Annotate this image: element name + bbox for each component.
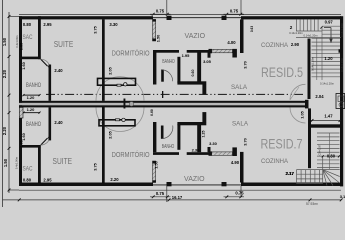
svg-text:1.20: 1.20 xyxy=(27,107,36,112)
svg-text:1.85: 1.85 xyxy=(19,43,23,50)
svg-text:1.50: 1.50 xyxy=(154,161,159,169)
svg-text:1.95: 1.95 xyxy=(182,53,191,58)
svg-text:3.1: 3.1 xyxy=(340,194,345,199)
svg-text:SUITE: SUITE xyxy=(53,157,73,166)
svg-text:SAC: SAC xyxy=(23,35,34,41)
svg-text:DORMITÓRIO: DORMITÓRIO xyxy=(112,150,150,159)
svg-text:0.80: 0.80 xyxy=(23,177,32,182)
svg-text:1.50: 1.50 xyxy=(2,37,7,46)
svg-text:3.30: 3.30 xyxy=(109,22,118,27)
svg-text:2.30: 2.30 xyxy=(192,148,201,153)
svg-text:SUITE: SUITE xyxy=(54,40,74,49)
svg-text:0.14x1.20m: 0.14x1.20m xyxy=(320,82,335,86)
svg-text:BANHO: BANHO xyxy=(162,59,175,65)
svg-text:COZINHA: COZINHA xyxy=(261,158,288,165)
svg-text:2.90: 2.90 xyxy=(291,42,300,47)
svg-text:COZINHA: COZINHA xyxy=(261,42,288,49)
svg-text:16.17: 16.17 xyxy=(172,195,183,200)
svg-text:2.20: 2.20 xyxy=(2,69,7,78)
svg-text:0.75: 0.75 xyxy=(156,191,165,196)
svg-text:3.05: 3.05 xyxy=(203,59,212,64)
svg-text:0.14x1.20m: 0.14x1.20m xyxy=(289,31,303,35)
svg-text:0.75: 0.75 xyxy=(230,8,239,13)
svg-text:SALA: SALA xyxy=(231,84,247,91)
svg-text:2.04: 2.04 xyxy=(315,94,324,99)
svg-text:0.80: 0.80 xyxy=(23,22,32,27)
svg-text:1.20: 1.20 xyxy=(27,95,36,100)
svg-text:BANHO: BANHO xyxy=(26,121,41,128)
svg-text:2.95: 2.95 xyxy=(43,177,52,182)
svg-text:0.75: 0.75 xyxy=(235,191,244,196)
svg-text:0.14x1.20m: 0.14x1.20m xyxy=(303,34,318,38)
svg-text:CH=1.97: CH=1.97 xyxy=(317,144,321,155)
svg-text:2.20: 2.20 xyxy=(2,126,7,135)
svg-text:SALA: SALA xyxy=(232,120,248,127)
svg-text:1.60: 1.60 xyxy=(22,133,26,140)
svg-text:2: 2 xyxy=(290,25,293,30)
svg-text:3.30: 3.30 xyxy=(209,141,218,146)
svg-text:0.80: 0.80 xyxy=(327,154,336,159)
svg-text:1.20: 1.20 xyxy=(324,56,333,61)
svg-text:1.05: 1.05 xyxy=(300,110,305,118)
svg-text:3.70: 3.70 xyxy=(243,61,248,69)
svg-text:2.20: 2.20 xyxy=(110,177,119,182)
svg-text:1.47: 1.47 xyxy=(324,113,333,118)
svg-text:0.14x1.20m: 0.14x1.20m xyxy=(340,57,344,72)
svg-text:DORMITÓRIO: DORMITÓRIO xyxy=(112,49,150,58)
svg-text:2.05: 2.05 xyxy=(108,66,113,74)
svg-text:1.50: 1.50 xyxy=(156,35,161,43)
svg-text:1.25: 1.25 xyxy=(202,131,206,138)
svg-text:0.4x1.00m: 0.4x1.00m xyxy=(15,157,19,169)
svg-text:BANHO: BANHO xyxy=(26,82,41,89)
svg-text:3.75: 3.75 xyxy=(93,25,98,33)
svg-text:VAZIO: VAZIO xyxy=(184,174,205,183)
svg-text:2.17: 2.17 xyxy=(285,171,294,176)
svg-text:SAC: SAC xyxy=(23,167,34,173)
svg-text:0.63: 0.63 xyxy=(250,26,254,32)
svg-text:2.40: 2.40 xyxy=(54,68,63,73)
svg-text:0.14x1.20m: 0.14x1.20m xyxy=(340,22,344,37)
svg-text:0.60: 0.60 xyxy=(150,109,154,116)
svg-text:2.95: 2.95 xyxy=(43,22,52,27)
svg-text:1.60: 1.60 xyxy=(22,62,26,69)
svg-text:2.40: 2.40 xyxy=(54,120,63,125)
svg-text:1.50: 1.50 xyxy=(3,158,8,167)
svg-text:VAZIO: VAZIO xyxy=(185,31,206,40)
svg-text:2.05: 2.05 xyxy=(108,130,113,138)
svg-text:0.97: 0.97 xyxy=(325,19,334,24)
svg-text:3.75: 3.75 xyxy=(93,162,98,170)
svg-text:0.75: 0.75 xyxy=(156,8,165,13)
svg-text:57.93m²: 57.93m² xyxy=(306,202,319,206)
svg-text:3.70: 3.70 xyxy=(243,138,248,146)
svg-text:0.60: 0.60 xyxy=(191,70,195,77)
svg-text:BANHO: BANHO xyxy=(162,144,175,150)
svg-text:4.00: 4.00 xyxy=(227,40,236,45)
svg-text:RESID.5: RESID.5 xyxy=(261,65,303,80)
svg-text:RESID.7: RESID.7 xyxy=(261,137,303,152)
svg-text:0.14x1.20m: 0.14x1.20m xyxy=(311,56,315,71)
svg-text:4.90: 4.90 xyxy=(231,160,240,165)
